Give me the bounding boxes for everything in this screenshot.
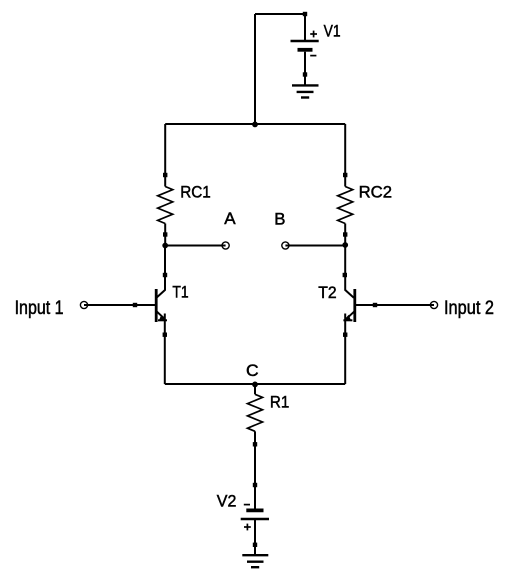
junction dot node A branch <box>162 243 168 249</box>
pin square T2 emitter <box>343 333 347 337</box>
wire RC2 bottom to node B junction <box>344 224 346 246</box>
svg-text:Input 1: Input 1 <box>15 298 64 319</box>
minus sign of V1 <box>310 55 316 57</box>
wire left branch from rail to RC1 <box>164 124 166 187</box>
wire T1 base <box>84 304 156 306</box>
svg-text:B: B <box>274 209 285 228</box>
pin square RC1 top <box>163 173 167 177</box>
battery V2 <box>241 510 269 555</box>
svg-text:RC1: RC1 <box>180 183 211 202</box>
terminal circle Input 2 <box>430 301 437 308</box>
junction dot on top rail <box>252 122 258 128</box>
pin square T2 collector <box>343 273 347 277</box>
transistor T2 <box>343 289 354 322</box>
svg-text:Input 2: Input 2 <box>444 298 494 319</box>
wire T2 emitter vertical <box>344 314 346 385</box>
wire RC1 bottom to node A junction <box>164 224 166 246</box>
svg-text:V1: V1 <box>324 22 341 41</box>
wire T2 collector vertical <box>344 246 346 291</box>
svg-text:R1: R1 <box>270 392 289 411</box>
transistor T1 <box>156 289 167 322</box>
resistor RC2 <box>338 187 353 224</box>
resistor R1 <box>248 394 263 431</box>
wire R1 bottom to battery V2 <box>254 431 256 508</box>
wire T1 collector vertical <box>164 246 166 291</box>
pin square T1 collector <box>163 273 167 277</box>
svg-text:RC2: RC2 <box>359 183 392 202</box>
svg-text:C: C <box>246 361 259 380</box>
wire right branch from rail to RC2 <box>344 124 346 187</box>
pin square RC1 bottom <box>163 232 167 236</box>
pin square at V1 bottom terminal <box>303 72 307 76</box>
ground symbol top <box>292 85 319 97</box>
resistor RC1 <box>158 187 173 224</box>
pin square T1 base <box>133 303 137 307</box>
plus sign of V1 <box>310 31 317 38</box>
pin square RC2 top <box>343 173 347 177</box>
svg-text:T1: T1 <box>172 283 188 302</box>
terminal circle A <box>222 242 229 249</box>
ground symbol bottom <box>242 555 268 567</box>
pin square V2 bottom terminal <box>253 543 257 547</box>
pin square V2 top terminal <box>253 483 257 487</box>
battery V1 <box>291 14 319 85</box>
pin square R1 bottom <box>253 442 257 446</box>
wire to terminal B <box>285 245 345 247</box>
svg-text:V2: V2 <box>217 492 237 511</box>
wire bottom rail <box>165 383 345 385</box>
wire top rail <box>165 123 345 125</box>
minus sign of V2 <box>244 504 250 506</box>
terminal circle B <box>282 242 289 249</box>
junction dot node B branch <box>342 242 348 248</box>
svg-text:A: A <box>224 209 236 228</box>
svg-text:T2: T2 <box>318 283 336 302</box>
pin square at V1 top terminal <box>303 12 307 16</box>
plus sign of V2 <box>244 524 251 531</box>
pin square RC2 bottom <box>343 232 347 236</box>
junction dot node C <box>252 382 258 388</box>
wire to terminal A <box>165 245 225 247</box>
terminal circle Input 1 <box>80 301 87 308</box>
wire top horizontal from corner to V1 <box>255 13 305 15</box>
pin square T2 base <box>373 303 377 307</box>
wire T1 emitter vertical <box>164 314 166 385</box>
wire top vertical from corner down to rail <box>254 14 256 124</box>
wire node C to R1 <box>254 384 256 394</box>
wire T2 base <box>355 304 434 306</box>
pin square T1 emitter <box>163 333 167 337</box>
